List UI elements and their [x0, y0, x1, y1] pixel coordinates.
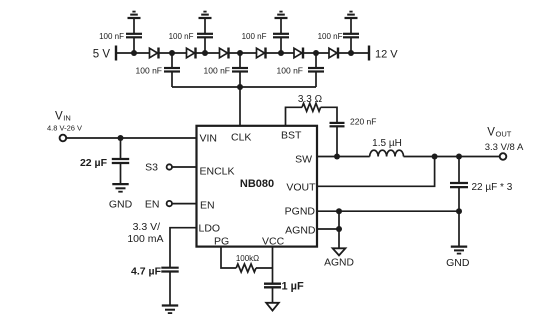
node VIN input terminal: [47, 111, 82, 142]
wire main charge-pump rail 5V to 12V: [116, 52, 369, 54]
wire down to AGND symbol: [338, 211, 340, 248]
node junction dot chain-5: [278, 50, 284, 56]
node junction dot PGND/out-cap: [456, 208, 462, 214]
node junction dot PGND/AGND: [336, 208, 342, 214]
svg-text:LDO: LDO: [199, 222, 221, 234]
svg-text:SW: SW: [295, 154, 312, 166]
ground (up) for 100nF up-2: [199, 12, 212, 18]
wire inductor to VOUT terminal: [404, 156, 500, 158]
svg-text:3.3 V/: 3.3 V/: [133, 221, 161, 233]
node 12V output terminal: [369, 46, 398, 61]
svg-text:100 nF: 100 nF: [99, 32, 124, 41]
diode D4: [257, 48, 266, 59]
ground (up) for 100nF up-3: [275, 12, 288, 18]
node EN input: [145, 198, 172, 210]
node junction dot SW/220nF: [334, 154, 340, 160]
capacitor C-out 22uF*3: [450, 157, 513, 246]
wire S3 to ENCLK pin: [172, 166, 197, 168]
svg-text:100 nF: 100 nF: [318, 32, 343, 41]
svg-text:5 V: 5 V: [93, 49, 111, 61]
svg-text:1.5 µH: 1.5 µH: [372, 138, 402, 149]
svg-text:EN: EN: [145, 198, 160, 210]
svg-text:4.7 µF: 4.7 µF: [131, 266, 162, 278]
node junction dot chain-6: [313, 50, 319, 56]
svg-text:PGND: PGND: [285, 206, 316, 218]
capacitor 100nF up-1: [99, 19, 142, 53]
svg-text:S3: S3: [145, 162, 158, 174]
svg-text:CLK: CLK: [231, 131, 251, 143]
ground for 4.7uF: [162, 306, 178, 314]
wire VCC pin down: [272, 247, 274, 283]
wire LDO pin to 4.7uF: [170, 228, 197, 267]
resistor R-PG 100k: [236, 254, 259, 272]
ground for output: [446, 247, 470, 269]
capacitor 220nF: [330, 116, 377, 156]
node junction dot chain-1: [131, 50, 137, 56]
capacitor 100nF down-3: [277, 53, 324, 87]
capacitor 100nF up-2: [169, 19, 213, 53]
node LDO 3.3V/100mA label: [127, 221, 163, 245]
diode D1: [150, 48, 159, 59]
svg-text:VIN: VIN: [200, 132, 218, 144]
wire AGND pin: [317, 228, 339, 230]
capacitor 100nF up-4: [318, 19, 359, 53]
node S3 input: [145, 162, 172, 174]
ground AGND triangle for 1uF: [266, 303, 279, 311]
svg-text:12 V: 12 V: [375, 49, 398, 61]
svg-text:220 nF: 220 nF: [350, 116, 376, 126]
svg-text:AGND: AGND: [324, 258, 354, 269]
node junction dot chain-2: [169, 50, 175, 56]
node 5V input terminal: [93, 46, 116, 61]
svg-text:100 nF: 100 nF: [242, 32, 267, 41]
node junction dot output cap: [456, 154, 462, 160]
wire VOUT pin feedback: [317, 157, 435, 187]
wire BST pin to resistor: [286, 107, 303, 126]
svg-text:100 nF: 100 nF: [277, 65, 303, 75]
node junction dot chain-3: [202, 50, 208, 56]
diode D5: [294, 48, 303, 59]
diode D2: [187, 48, 196, 59]
capacitor 100nF up-3: [242, 19, 289, 53]
capacitor 100nF down-2: [204, 53, 248, 87]
wire resistor to VCC line: [256, 267, 273, 269]
svg-text:EN: EN: [200, 200, 215, 212]
node junction dot clock bus: [237, 84, 243, 90]
node junction dot chain-4: [237, 50, 243, 56]
svg-text:VOUT: VOUT: [286, 182, 316, 194]
svg-text:V: V: [487, 126, 495, 138]
ground (up) for 100nF up-1: [128, 12, 141, 18]
svg-text:ENCLK: ENCLK: [200, 166, 235, 178]
node junction dot feedback: [432, 154, 438, 160]
wire bus to CLK pin: [239, 87, 241, 126]
svg-text:22 µF * 3: 22 µF * 3: [472, 182, 513, 193]
svg-text:100 nF: 100 nF: [136, 65, 162, 75]
svg-text:BST: BST: [281, 130, 302, 142]
op-amp U1 NB080 converter IC: [197, 126, 318, 248]
svg-text:NB080: NB080: [240, 178, 274, 190]
inductor L1 1.5uH: [370, 138, 404, 157]
wire resistor to 220nF: [321, 107, 337, 122]
wire VIN terminal to VIN pin: [67, 137, 197, 139]
svg-text:PG: PG: [214, 236, 229, 248]
wire EN circle to EN pin: [172, 203, 197, 205]
diode D6: [329, 48, 338, 59]
wire SW pin to inductor: [317, 156, 370, 158]
node junction dot AGND: [336, 226, 342, 232]
svg-text:V: V: [55, 111, 63, 123]
svg-text:VCC: VCC: [262, 236, 285, 248]
svg-text:AGND: AGND: [285, 225, 316, 237]
wire PG pin to resistor: [221, 247, 236, 268]
svg-text:100kΩ: 100kΩ: [236, 254, 259, 263]
ground AGND triangle: [324, 248, 354, 268]
svg-text:100 nF: 100 nF: [204, 65, 230, 75]
svg-text:100 mA: 100 mA: [127, 233, 163, 245]
diode D3: [220, 48, 229, 59]
svg-text:100 nF: 100 nF: [169, 32, 194, 41]
ground for 22uF: [109, 184, 133, 211]
ground (up) for 100nF up-4: [345, 12, 358, 18]
capacitor C-in 22uF: [80, 138, 129, 183]
svg-text:3.3 V/8 A: 3.3 V/8 A: [485, 142, 524, 153]
svg-text:GND: GND: [446, 257, 470, 269]
svg-text:GND: GND: [109, 199, 133, 211]
capacitor 100nF down-1: [136, 53, 180, 87]
capacitor 4.7uF: [131, 266, 179, 305]
wire PGND pin to output cap: [317, 210, 459, 212]
node junction dot VIN: [118, 135, 124, 141]
svg-text:3.3 Ω: 3.3 Ω: [298, 94, 323, 105]
wire clock bus under chain: [172, 86, 316, 88]
node VOUT output terminal: [485, 126, 524, 159]
resistor R-BST 3.3 ohm: [298, 94, 323, 111]
svg-text:1 µF: 1 µF: [282, 281, 305, 293]
svg-text:22 µF: 22 µF: [80, 157, 108, 169]
svg-text:4.8 V-26 V: 4.8 V-26 V: [47, 123, 82, 132]
svg-text:OUT: OUT: [496, 129, 512, 138]
capacitor 1uF: [264, 281, 304, 303]
node junction dot chain-7: [348, 50, 354, 56]
svg-text:IN: IN: [63, 114, 71, 123]
